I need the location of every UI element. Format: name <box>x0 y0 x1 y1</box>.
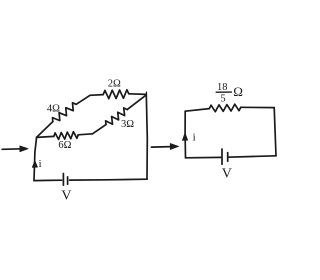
resistor R 4-ohm (diagonal) <box>53 103 77 122</box>
label i (right circuit) <box>193 132 196 144</box>
wire: upper part of 3-ohm diagonal to top-right corner <box>127 95 146 109</box>
wire: upper part of 4-ohm diagonal <box>76 95 90 104</box>
wire: right circuit bottom, right of battery <box>228 156 276 157</box>
svg-text:V: V <box>222 167 232 182</box>
svg-text:Ω: Ω <box>233 84 243 99</box>
wire: left circuit right vertical edge <box>146 94 147 179</box>
label V (left battery) <box>61 188 71 203</box>
battery V (right circuit): long plate <box>221 149 223 164</box>
label 18/5 ohm: denominator 5 <box>220 94 225 105</box>
label 18/5 ohm: ohm sign <box>233 84 243 99</box>
label 18/5 ohm: fraction bar <box>216 91 231 93</box>
wire: 6-ohm resistor to lower-middle node <box>78 134 92 135</box>
label 3-ohm <box>121 119 134 130</box>
svg-text:4Ω: 4Ω <box>47 104 60 115</box>
input arrow (far left, pointing right) <box>2 146 28 152</box>
resistor R 2-ohm <box>103 90 129 99</box>
wire: lower part of 4-ohm diagonal to node A <box>37 122 53 138</box>
resistor R 18/5-ohm <box>209 104 241 112</box>
svg-text:i: i <box>193 132 196 144</box>
label 6-ohm <box>58 140 71 151</box>
label 4-ohm <box>47 104 60 115</box>
svg-text:5: 5 <box>220 94 225 105</box>
wire: left circuit left vertical (node A down to bottom-left corner) <box>34 137 37 180</box>
wire: left circuit bottom, left of battery <box>34 179 62 181</box>
wire: lower part of 3-ohm diagonal <box>93 125 107 134</box>
wire: right circuit top, left of resistor <box>185 109 209 112</box>
wire: 2-ohm resistor to upper-middle node <box>90 94 103 97</box>
svg-text:3Ω: 3Ω <box>121 119 134 130</box>
wire: right circuit top, right of resistor <box>241 106 274 108</box>
wire: right circuit right vertical edge <box>274 108 276 156</box>
label V (right battery) <box>222 167 232 182</box>
wire: node A to 6-ohm resistor <box>37 136 54 137</box>
battery V (right circuit): short plate <box>227 153 229 162</box>
label 2-ohm <box>108 79 121 90</box>
current arrow i (right circuit, pointing up) <box>182 133 188 141</box>
label 18/5 ohm: numerator 18 <box>217 82 228 93</box>
svg-text:2Ω: 2Ω <box>108 79 121 90</box>
resistor R 6-ohm <box>54 132 78 140</box>
svg-text:V: V <box>61 188 71 203</box>
svg-text:6Ω: 6Ω <box>58 140 71 151</box>
wire: right circuit bottom, left of battery <box>186 156 222 158</box>
battery V (left circuit): short plate <box>67 177 69 185</box>
current arrow i (left circuit, pointing up) <box>32 161 37 168</box>
battery V (left circuit): long plate <box>62 174 64 186</box>
equivalence arrow (between circuits, pointing right) <box>151 143 178 149</box>
wire: top-right corner to 2-ohm resistor <box>129 92 147 94</box>
resistor R 3-ohm (diagonal) <box>106 108 128 125</box>
svg-text:i: i <box>39 159 42 170</box>
label i (left circuit) <box>39 159 42 170</box>
wire: right circuit left vertical edge <box>184 111 186 158</box>
wire: left circuit bottom, right of battery <box>70 178 147 181</box>
